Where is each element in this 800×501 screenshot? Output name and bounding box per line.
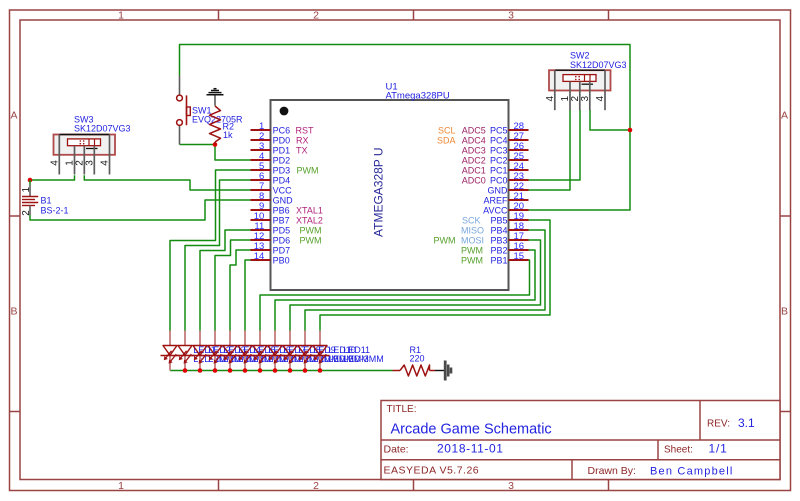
- svg-text:15: 15: [514, 251, 525, 262]
- svg-text:SCL: SCL: [438, 125, 456, 135]
- svg-text:Date:: Date:: [384, 444, 409, 456]
- svg-text:PC2: PC2: [490, 155, 508, 165]
- junction LED11 cathode on rail: [318, 368, 323, 373]
- svg-text:Arcade Game Schematic: Arcade Game Schematic: [391, 422, 552, 438]
- svg-text:PD1: PD1: [273, 145, 291, 155]
- svg-text:PC4: PC4: [490, 135, 508, 145]
- wire U1 pin 16 PB2 to LED8: [275, 250, 535, 331]
- U1 pin 6 PD4: [251, 171, 291, 186]
- svg-text:SCK: SCK: [462, 215, 481, 225]
- svg-text:PB1: PB1: [490, 255, 507, 265]
- junction LED2 cathode on rail: [183, 368, 188, 373]
- U1 pin 2 PD0: [251, 131, 309, 146]
- LED LED8 name and value labels: [298, 345, 339, 364]
- svg-text:PWM: PWM: [300, 235, 322, 245]
- junction LED6 cathode on rail: [243, 368, 248, 373]
- LED LED4 name and value labels: [238, 345, 279, 364]
- svg-text:SK12D07VG3: SK12D07VG3: [74, 124, 131, 134]
- LED LED4: [206, 331, 225, 371]
- wire U1 pin 5 PD3 to LED1: [170, 170, 251, 331]
- junction LED7 cathode on rail: [258, 368, 263, 373]
- U1 pin 28 PC5: [438, 121, 529, 136]
- LED LED2 name and value labels: [208, 345, 249, 364]
- svg-text:RX: RX: [296, 135, 309, 145]
- earth ground above R2: [207, 89, 224, 106]
- svg-text:ADC4: ADC4: [462, 135, 486, 145]
- LED LED1 name and value labels: [193, 345, 234, 364]
- svg-text:PB5: PB5: [490, 215, 507, 225]
- svg-text:A: A: [10, 110, 17, 122]
- junction battery positive node: [28, 178, 33, 183]
- svg-text:4: 4: [100, 160, 111, 166]
- svg-text:PWM: PWM: [300, 225, 322, 235]
- wire SW1 top to AVCC node (top rail): [180, 45, 631, 131]
- wire AVCC node to U1 pin 20 AVCC: [528, 130, 630, 210]
- svg-text:PC1: PC1: [490, 165, 508, 175]
- U1 pin 16 PB2: [461, 241, 529, 256]
- junction LED5 cathode on rail: [228, 368, 233, 373]
- svg-text:PC3: PC3: [490, 145, 508, 155]
- svg-text:PWM: PWM: [434, 235, 456, 245]
- U1 pin 18 PB4: [461, 221, 529, 236]
- svg-text:XTAL2: XTAL2: [296, 215, 323, 225]
- svg-text:PC0: PC0: [490, 175, 508, 185]
- wire U1 pin 14 PB0 to LED6: [245, 260, 251, 331]
- svg-text:B1: B1: [41, 195, 52, 205]
- U1 pin 11 PD5: [251, 221, 322, 236]
- svg-text:PD0: PD0: [273, 135, 291, 145]
- U1 pin 13 PD7: [251, 241, 291, 256]
- U1 pin 19 PB5: [462, 211, 529, 226]
- svg-text:1: 1: [21, 187, 32, 193]
- U1 pin 8 GND: [251, 191, 294, 206]
- U1 pin 15 PB1: [461, 251, 529, 266]
- ground after R1: [435, 361, 451, 381]
- wire U1 pin 13 PD7 to LED5: [230, 250, 251, 331]
- U1 pin 27 PC4: [437, 131, 529, 146]
- svg-text:3: 3: [508, 10, 514, 22]
- svg-text:1/1: 1/1: [709, 442, 728, 456]
- U1 pin 26 PC3: [462, 141, 529, 156]
- junction LED10 cathode on rail: [303, 368, 308, 373]
- svg-text:Ben Campbell: Ben Campbell: [650, 466, 734, 478]
- resistor R1 220: [393, 345, 436, 376]
- LED LED11 name and value labels: [343, 345, 384, 364]
- LED LED9: [281, 331, 300, 371]
- LED LED11: [311, 331, 330, 371]
- U1 pin 5 PD3: [251, 161, 319, 176]
- junction AVCC node: [628, 128, 633, 133]
- svg-text:3.1: 3.1: [738, 416, 755, 430]
- svg-text:B: B: [10, 306, 17, 318]
- svg-text:EASYEDA V5.7.26: EASYEDA V5.7.26: [384, 465, 480, 477]
- svg-text:PD4: PD4: [273, 175, 291, 185]
- svg-text:PD6: PD6: [273, 235, 291, 245]
- wire U1 pin 18 PB4 to LED10: [305, 230, 545, 331]
- svg-text:1: 1: [118, 480, 124, 492]
- svg-text:PWM: PWM: [297, 165, 319, 175]
- svg-text:Drawn By:: Drawn By:: [588, 465, 636, 477]
- svg-text:PWM: PWM: [461, 255, 483, 265]
- U1 pin 12 PD6: [251, 231, 322, 246]
- wire U1 pin 19 PB5 to LED11: [320, 220, 550, 331]
- svg-text:2: 2: [313, 480, 319, 492]
- svg-text:2: 2: [313, 10, 319, 22]
- IC U1 ATmega328PU chip body: [271, 82, 509, 291]
- svg-text:TITLE:: TITLE:: [387, 404, 417, 415]
- svg-text:ATMEGA328P U: ATMEGA328P U: [372, 147, 386, 237]
- svg-text:PD3: PD3: [273, 165, 291, 175]
- junction LED9 cathode on rail: [288, 368, 293, 373]
- svg-text:PB7: PB7: [273, 215, 290, 225]
- svg-text:ADC5: ADC5: [462, 125, 486, 135]
- wire battery B1 negative to U1 pin 8 GND: [30, 200, 251, 220]
- svg-text:ADC1: ADC1: [462, 165, 486, 175]
- U1 pin 4 PD2: [251, 151, 291, 166]
- svg-text:SDA: SDA: [437, 135, 456, 145]
- LED LED6: [236, 331, 255, 371]
- svg-text:PC6: PC6: [273, 125, 291, 135]
- svg-text:MISO: MISO: [461, 225, 484, 235]
- svg-text:VCC: VCC: [273, 185, 293, 195]
- U1 pin 17 PB3: [434, 231, 529, 246]
- LED LED10: [296, 331, 315, 371]
- svg-text:AREF: AREF: [483, 195, 508, 205]
- wire LED cathode rail to R1: [170, 370, 393, 372]
- junction LED3 cathode on rail: [198, 368, 203, 373]
- svg-text:SK12D07VG3: SK12D07VG3: [570, 60, 627, 70]
- svg-text:MOSI: MOSI: [461, 235, 484, 245]
- svg-text:A: A: [781, 110, 788, 122]
- LED LED5: [221, 331, 240, 371]
- LED LED9 name and value labels: [313, 345, 354, 364]
- svg-text:14: 14: [254, 251, 265, 262]
- U1 pin 22 GND: [488, 181, 529, 196]
- svg-text:LED-3MM: LED-3MM: [343, 354, 384, 364]
- LED LED6 name and value labels: [268, 345, 309, 364]
- svg-text:PB0: PB0: [273, 255, 290, 265]
- svg-text:PWM: PWM: [461, 245, 483, 255]
- svg-text:PD7: PD7: [273, 245, 291, 255]
- wire SW1 bottom to R2 node: [180, 144, 216, 146]
- svg-text:PC5: PC5: [490, 125, 508, 135]
- svg-text:2018-11-01: 2018-11-01: [437, 442, 504, 456]
- LED LED2: [176, 331, 195, 371]
- svg-text:2: 2: [21, 210, 32, 216]
- battery B1 BS-2-1: [21, 180, 68, 216]
- LED LED7: [251, 331, 270, 371]
- svg-text:ATmega328PU: ATmega328PU: [386, 91, 450, 102]
- wire U1 pin 6 PD4 to LED2: [185, 180, 251, 331]
- wire SW2 pin 1 to U1 pin 22 GND: [528, 110, 570, 190]
- U1 pin 20 AVCC: [483, 201, 528, 216]
- svg-text:3: 3: [84, 160, 95, 166]
- svg-text:PB2: PB2: [490, 245, 507, 255]
- U1 pin 7 VCC: [251, 181, 293, 196]
- U1 pin 9 PB6: [251, 201, 323, 216]
- LED LED8: [266, 331, 285, 371]
- svg-text:PB4: PB4: [490, 225, 507, 235]
- svg-text:PD2: PD2: [273, 155, 291, 165]
- U1 pin 3 PD1: [251, 141, 308, 156]
- wire U1 pin 17 PB3 to LED9: [290, 240, 541, 331]
- svg-text:PD5: PD5: [273, 225, 291, 235]
- LED LED5 name and value labels: [253, 345, 294, 364]
- LED LED3 name and value labels: [223, 345, 264, 364]
- title block: [381, 401, 780, 480]
- LED LED10 name and value labels: [328, 345, 369, 364]
- svg-text:GND: GND: [488, 185, 509, 195]
- svg-text:PB6: PB6: [273, 205, 290, 215]
- svg-text:220: 220: [410, 354, 425, 364]
- junction LED4 cathode on rail: [213, 368, 218, 373]
- pushbutton SW1 EVQ22705R: [177, 76, 243, 145]
- resistor R2 1k: [210, 106, 235, 145]
- slide switch SW2 SK12D07VG3: [545, 70, 611, 110]
- U1 pin 23 PC0: [462, 171, 529, 186]
- svg-text:1k: 1k: [223, 130, 233, 140]
- wire U1 pin 15 PB1 to LED7: [260, 260, 530, 331]
- svg-text:REV:: REV:: [707, 419, 730, 430]
- svg-text:4: 4: [545, 96, 556, 102]
- junction R2 / SW1 / PD2 node: [213, 142, 218, 147]
- U1 pin 10 PB7: [251, 211, 323, 226]
- wire SW2 pin 3 to AVCC node: [590, 110, 630, 130]
- LED LED7 name and value labels: [283, 345, 324, 364]
- svg-text:1: 1: [118, 10, 124, 22]
- svg-text:PB3: PB3: [490, 235, 507, 245]
- svg-text:ADC0: ADC0: [462, 175, 486, 185]
- svg-text:RST: RST: [296, 125, 315, 135]
- wire SW2 pin 2 to U1 pin 23 ADC0: [528, 110, 580, 180]
- wire R2 node to U1 pin 4 PD2: [215, 145, 251, 161]
- svg-text:ADC2: ADC2: [462, 155, 486, 165]
- svg-text:4: 4: [49, 160, 60, 166]
- wire SW3 pin 2 to U1 pin 7 VCC: [84, 175, 251, 190]
- svg-text:B: B: [781, 306, 788, 318]
- LED LED1: [161, 331, 180, 371]
- svg-text:4: 4: [595, 96, 606, 102]
- U1 pin 1 PC6: [251, 121, 315, 136]
- U1 pin 24 PC1: [462, 161, 529, 176]
- svg-text:AVCC: AVCC: [483, 205, 508, 215]
- U1 pin 14 PB0: [251, 251, 290, 266]
- svg-text:ADC3: ADC3: [462, 145, 486, 155]
- wire U1 pin 11 PD5 to LED3: [200, 230, 251, 331]
- svg-text:Sheet:: Sheet:: [664, 445, 693, 456]
- svg-text:XTAL1: XTAL1: [296, 205, 323, 215]
- svg-text:3: 3: [508, 480, 514, 492]
- svg-text:BS-2-1: BS-2-1: [41, 205, 69, 215]
- svg-text:3: 3: [580, 96, 591, 102]
- svg-text:TX: TX: [296, 145, 308, 155]
- U1 pin 25 PC2: [462, 151, 529, 166]
- wire U1 pin 12 PD6 to LED4: [215, 240, 251, 331]
- LED LED3: [191, 331, 210, 371]
- slide switch SW3 SK12D07VG3: [49, 135, 115, 175]
- U1 pin 21 AREF: [483, 191, 528, 206]
- svg-text:GND: GND: [273, 195, 294, 205]
- wire battery B1 positive to SW3 pin 1 (VCC net): [30, 175, 75, 180]
- junction LED8 cathode on rail: [273, 368, 278, 373]
